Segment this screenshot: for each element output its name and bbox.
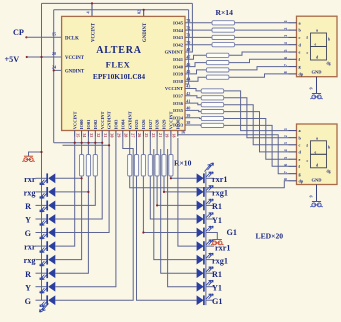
svg-text:8: 8 [283, 71, 288, 73]
wire to row9 right [168, 149, 197, 287]
svg-text:rxr: rxr [24, 243, 36, 252]
svg-text:dg: dg [327, 62, 331, 66]
svg-text:rxr1: rxr1 [212, 175, 227, 184]
svg-text:20: 20 [52, 51, 56, 56]
LED D4 Y left [36, 218, 48, 220]
wire to ground port left [29, 152, 42, 156]
svg-text:CP: CP [13, 28, 24, 37]
power ground port left [22, 156, 34, 161]
LED D7 rxg left [36, 259, 48, 261]
svg-text:R: R [25, 270, 31, 279]
svg-text:c: c [299, 142, 301, 147]
svg-text:VCCINT: VCCINT [72, 112, 77, 130]
svg-text:1: 1 [283, 20, 288, 22]
power ground port G1 [211, 240, 223, 245]
pin e 5 display DS1 [289, 51, 297, 53]
resistor R x 14 A2 [185, 29, 289, 31]
wire +5V rail top [42, 2, 193, 4]
svg-text:e: e [299, 50, 301, 55]
svg-text:33: 33 [89, 133, 94, 137]
wire pin7 to LED row9 left [55, 137, 116, 287]
svg-text:VCCINT: VCCINT [168, 112, 173, 130]
LED D18 R1 right [197, 268, 204, 278]
resistor network R-right body 5 [155, 155, 159, 177]
wire CP to DCLK [26, 36, 61, 38]
resistor R x 14 B2 [185, 63, 229, 67]
svg-text:4: 4 [283, 42, 288, 44]
svg-text:IO29: IO29 [162, 119, 167, 130]
pin b 2 display DS2 [289, 137, 297, 139]
svg-text:43: 43 [186, 84, 190, 89]
LED right top arrows [205, 163, 214, 172]
svg-text:rxg: rxg [24, 189, 37, 198]
svg-text:Y1: Y1 [212, 284, 222, 293]
svg-text:G: G [25, 229, 32, 238]
wire GND rail under chip [63, 144, 110, 146]
svg-text:GND: GND [312, 178, 323, 183]
power ground port display DS2 [310, 202, 322, 207]
svg-text:e: e [299, 157, 301, 162]
svg-text:5: 5 [283, 157, 288, 159]
svg-text:IO25: IO25 [134, 119, 139, 130]
resistor network R-right body 7 [169, 155, 173, 177]
svg-text:IO02: IO02 [93, 119, 98, 130]
svg-text:IO28: IO28 [155, 119, 160, 130]
wire +5V rail right drop to chip [185, 3, 192, 52]
resistor network R-left body 1 [80, 155, 84, 177]
svg-text:2: 2 [283, 28, 288, 30]
svg-text:GNDINT: GNDINT [65, 70, 85, 75]
svg-text:Y: Y [25, 283, 31, 292]
wire pin8 jog to LED row10 left [55, 137, 133, 301]
svg-text:31: 31 [103, 133, 108, 137]
svg-text:21: 21 [158, 133, 163, 137]
svg-text:29: 29 [117, 133, 122, 137]
svg-text:GNDINT: GNDINT [143, 22, 148, 42]
svg-text:27: 27 [130, 133, 135, 137]
wire to row6 right [178, 138, 197, 246]
svg-text:R: R [25, 202, 31, 211]
wire to row7 right [154, 149, 197, 260]
LED D9 Y left [36, 286, 48, 288]
svg-text:40: 40 [186, 106, 190, 111]
wire GND to GNDINT pin 24 [54, 69, 62, 71]
pin dp 8 display DS1 [289, 73, 297, 75]
7-segment display DS2 body [297, 124, 338, 185]
svg-text:16: 16 [181, 130, 185, 135]
svg-text:IO36: IO36 [173, 101, 184, 106]
svg-text:VCCINT: VCCINT [92, 22, 97, 42]
digit segments display DS1 [311, 33, 327, 60]
pin c 3 display DS2 [289, 144, 297, 146]
svg-text:R×10: R×10 [174, 158, 192, 167]
svg-text:IO30: IO30 [175, 119, 180, 130]
svg-text:71: 71 [186, 33, 190, 38]
resistor network R-right body 6 [162, 155, 166, 177]
svg-text:IO45: IO45 [173, 21, 184, 26]
svg-text:R1: R1 [212, 270, 222, 279]
svg-text:23: 23 [151, 133, 156, 137]
svg-text:IO43: IO43 [173, 35, 184, 40]
pin g 7 display DS1 [289, 66, 297, 68]
wire row2 left [55, 191, 88, 193]
wire +5V rail to VCCINT top pin 4 [91, 3, 93, 16]
svg-text:b: b [328, 38, 330, 42]
svg-text:G1: G1 [227, 228, 237, 237]
pin e 5 display DS2 [289, 158, 297, 160]
LED D19 Y1 right [197, 282, 204, 292]
svg-text:35: 35 [75, 133, 80, 137]
svg-text:IO37: IO37 [173, 94, 184, 99]
wire left resistor1 through row1 to row7 left [55, 177, 81, 260]
resistor R x 14 B4 [185, 77, 229, 81]
svg-text:30: 30 [110, 133, 115, 137]
wire G1 row to ground port [206, 233, 217, 240]
LED D13 R1 right [197, 201, 204, 211]
svg-text:rxg1: rxg1 [212, 256, 228, 265]
svg-text:2: 2 [283, 135, 288, 137]
svg-text:IO38: IO38 [173, 79, 184, 84]
LED left bottom arrows [40, 304, 49, 313]
svg-text:rxg1: rxg1 [212, 189, 228, 198]
pin d 4 display DS1 [289, 44, 297, 46]
svg-text:19: 19 [165, 133, 170, 137]
svg-text:3: 3 [283, 142, 288, 144]
svg-text:dg: dg [327, 169, 331, 173]
resistor R x 14 C3 [185, 103, 201, 105]
LED D10 G left [36, 299, 48, 301]
svg-text:dp: dp [299, 178, 304, 183]
svg-text:39: 39 [186, 113, 190, 118]
LED D17 rxg1 right [197, 255, 204, 265]
svg-text:IO42: IO42 [173, 42, 184, 47]
svg-text:IO41: IO41 [173, 57, 184, 62]
op FPGA U1 ALTERA FLEX EPF10K10LC84 body [62, 16, 185, 130]
wire right resistor1 to display2 pin8 [130, 177, 289, 188]
resistor network R-right body 1 [128, 155, 132, 177]
svg-text:48: 48 [186, 47, 190, 52]
svg-text:4: 4 [283, 149, 288, 151]
pin dp 8 display DS2 [289, 180, 297, 182]
svg-text:rxg: rxg [24, 256, 37, 265]
svg-text:1: 1 [283, 128, 288, 130]
pin a 1 display DS1 [289, 22, 297, 24]
svg-text:a: a [316, 29, 318, 33]
resistor R x 14 C4 [185, 110, 201, 111]
wire to row8 right [161, 149, 197, 273]
svg-text:47: 47 [186, 55, 190, 60]
pin a 1 display DS2 [289, 130, 297, 132]
digit segments display DS2 [311, 141, 327, 168]
LED D14 Y1 right [197, 214, 204, 224]
svg-text:b: b [328, 145, 330, 149]
svg-text:8: 8 [283, 178, 288, 180]
wire +5V to VCCINT pin 20 [27, 56, 62, 58]
svg-text:R×14: R×14 [216, 8, 234, 17]
svg-text:IO40: IO40 [173, 64, 184, 69]
LED D8 R left [36, 272, 48, 274]
svg-text:46: 46 [186, 62, 190, 67]
svg-text:IO00: IO00 [79, 119, 84, 130]
svg-text:42: 42 [186, 91, 190, 96]
svg-text:rxr: rxr [24, 175, 36, 184]
svg-text:IO26: IO26 [141, 119, 146, 130]
wire VCC rail under chip [54, 142, 102, 144]
svg-text:G: G [25, 297, 32, 306]
7-segment display DS1 body [297, 16, 338, 76]
wire left resistor2 through row2 to row8 left [55, 177, 88, 274]
wires right resistors 3-7 to right LED rows 1-5 [171, 177, 197, 179]
LED D5 G left [36, 232, 48, 234]
svg-text:FLEX: FLEX [106, 60, 131, 70]
resistor R x 14 C2 [185, 96, 201, 98]
svg-text:6: 6 [283, 57, 288, 59]
pin f 6 display DS2 [289, 165, 297, 167]
junction dots [40, 56, 42, 58]
LED D12 rxg1 right [197, 187, 204, 197]
svg-text:Y1: Y1 [212, 216, 222, 225]
wire GND rail right drop to chip [185, 10, 188, 84]
svg-text:25: 25 [144, 133, 149, 137]
svg-text:GND: GND [312, 70, 323, 75]
LED D1 rxr left [36, 177, 48, 179]
resistor R x 14 A3 [185, 36, 289, 38]
wire LED left bus [41, 57, 43, 300]
svg-text:3: 3 [283, 35, 288, 37]
svg-text:38: 38 [186, 120, 190, 125]
wires bottom pins 2-4 to left resistors [81, 137, 83, 155]
svg-text:c: c [299, 35, 301, 40]
wire GND rail top [54, 9, 189, 11]
svg-text:82: 82 [137, 10, 142, 14]
svg-text:6: 6 [283, 164, 288, 166]
LED D16 rxr1 right [197, 241, 204, 251]
svg-text:18: 18 [171, 133, 176, 137]
svg-text:45: 45 [186, 69, 190, 74]
svg-text:7: 7 [283, 64, 288, 66]
svg-text:IO04: IO04 [120, 119, 125, 130]
resistor network R-right body 2 [134, 155, 138, 177]
svg-text:9: 9 [309, 195, 314, 197]
LED D2 rxg left [36, 191, 48, 193]
svg-text:DCLK: DCLK [65, 36, 79, 41]
resistor R x 14 C1 [185, 89, 201, 91]
LED D20 G1 right [197, 295, 204, 305]
svg-text:26: 26 [137, 133, 142, 137]
wire GND rail to GNDINT top pin 82 [143, 10, 145, 17]
svg-text:ALTERA: ALTERA [96, 45, 142, 56]
svg-text:GNDINT: GNDINT [127, 111, 132, 129]
wire pin6 to LED row5 left [55, 137, 109, 233]
svg-text:G1: G1 [212, 297, 222, 306]
pin g 7 display DS2 [289, 173, 297, 175]
svg-text:9: 9 [309, 87, 314, 89]
svg-text:IO44: IO44 [173, 28, 184, 33]
svg-text:IO35: IO35 [173, 108, 184, 113]
svg-text:IO03: IO03 [114, 119, 119, 130]
pin f 6 display DS1 [289, 58, 297, 60]
svg-text:IO27: IO27 [148, 119, 153, 130]
resistor network R-left body 2 [86, 155, 90, 177]
svg-text:GNDINT: GNDINT [165, 50, 183, 55]
LED D3 R left [36, 204, 48, 206]
resistor R x 14 B3 [185, 70, 229, 74]
svg-text:LED×20: LED×20 [256, 231, 284, 240]
svg-text:GNDINT: GNDINT [107, 111, 112, 129]
resistor R x 14 A1 [185, 22, 289, 24]
svg-text:VCCINT: VCCINT [165, 86, 183, 91]
wire pin5 to row4 left [55, 137, 102, 220]
wire left resistor3 to row3 left [55, 177, 95, 206]
svg-text:R1: R1 [212, 202, 222, 211]
svg-text:a: a [316, 136, 318, 140]
LED D6 rxr left [36, 245, 48, 247]
LED D11 rxr1 right [197, 173, 204, 183]
svg-text:72: 72 [186, 25, 190, 30]
wire LED right bus [205, 172, 207, 306]
svg-text:VCCINT: VCCINT [100, 112, 105, 130]
pin c 3 display DS1 [289, 36, 297, 38]
wire pin16 to display2 pin7 [178, 131, 289, 174]
svg-text:41: 41 [186, 98, 190, 103]
svg-text:7: 7 [283, 171, 288, 173]
power ground port display DS1 [310, 94, 322, 99]
svg-text:IO01: IO01 [86, 119, 91, 130]
svg-text:73: 73 [186, 18, 190, 23]
resistor network R-right body 4 [148, 155, 152, 177]
svg-text:VCCINT: VCCINT [65, 56, 85, 61]
svg-text:32: 32 [96, 133, 101, 137]
wire pin1 to LED row6 left [55, 137, 74, 247]
svg-text:EPF10K10LC84: EPF10K10LC84 [93, 72, 145, 81]
resistor network R-right body 3 [141, 155, 145, 177]
pin b 2 display DS1 [289, 29, 297, 31]
svg-text:28: 28 [123, 133, 128, 137]
svg-text:dp: dp [299, 72, 304, 77]
svg-text:5: 5 [283, 50, 288, 52]
svg-text:IO39: IO39 [173, 72, 184, 77]
resistor R x 14 B1 [185, 55, 229, 59]
svg-text:70: 70 [186, 40, 190, 45]
svg-text:15: 15 [52, 31, 56, 36]
wire right resistor2 to row10 right [137, 177, 197, 301]
resistor R x 14 C5 [185, 117, 201, 120]
resistor R x 14 C6 [185, 124, 201, 126]
pin d 4 display DS2 [289, 151, 297, 153]
wire row1 left [55, 177, 81, 179]
resistor network R-left body 3 [93, 155, 97, 177]
LED D15 G1 right [197, 228, 204, 238]
svg-text:Y: Y [25, 216, 31, 225]
svg-text:+5V: +5V [5, 55, 20, 64]
resistor R x 14 A4 [185, 44, 289, 46]
